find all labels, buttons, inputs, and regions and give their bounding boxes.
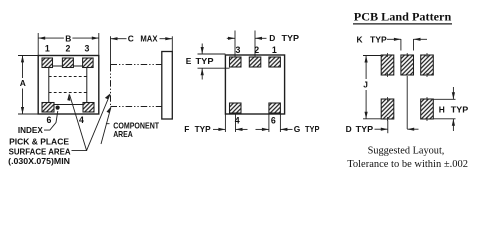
component area left centerline — [110, 65, 112, 106]
svg-text:TYP: TYP — [282, 33, 300, 43]
dimension G arrow right — [280, 128, 292, 130]
dimension J extension line bottom — [363, 118, 381, 120]
dimension H arrow bottom — [452, 119, 454, 131]
pick and place leader line right branch — [87, 95, 110, 151]
pad 3 top view — [83, 58, 94, 68]
svg-text:F: F — [184, 124, 189, 134]
dimension K extension line right — [413, 39, 415, 51]
component body inner outline — [49, 66, 87, 105]
pick and place area dashed line lower — [49, 92, 87, 94]
dimension C arrow right — [165, 37, 172, 40]
pick and place leader line — [70, 95, 87, 151]
dimension E arrow top — [201, 44, 203, 55]
svg-text:6: 6 — [47, 115, 52, 125]
pad 4 top view — [83, 103, 94, 113]
dimension A line — [22, 56, 24, 78]
package outline bottom view — [225, 55, 284, 114]
pad 2 top view — [62, 58, 73, 68]
dimension B extension line right — [98, 33, 100, 56]
component area leader line — [101, 107, 111, 144]
dimension A extension line bottom — [18, 113, 38, 115]
component area bottom centerline — [111, 106, 162, 108]
title underline — [353, 23, 452, 25]
dimension C arrow left — [111, 37, 118, 40]
svg-text:2: 2 — [254, 45, 259, 55]
svg-text:MAX: MAX — [140, 34, 157, 44]
dimension F arrow right — [236, 128, 248, 130]
dimension H extension line bottom — [433, 118, 455, 120]
svg-text:PICK & PLACE: PICK & PLACE — [9, 137, 69, 147]
land pad top left — [381, 55, 394, 75]
svg-text:Suggested Layout,: Suggested Layout, — [368, 145, 445, 157]
dimension B arrow right — [92, 37, 99, 40]
svg-text:TYP: TYP — [370, 34, 387, 44]
dimension F extension line right — [235, 114, 237, 132]
dimension A extension line top — [18, 55, 38, 57]
svg-text:TYP: TYP — [196, 56, 214, 66]
dimension E arrow bottom — [201, 68, 203, 79]
land pad bottom right — [421, 99, 434, 119]
land pad top middle — [401, 55, 414, 75]
svg-text:2: 2 — [66, 43, 71, 53]
svg-text:4: 4 — [235, 116, 240, 126]
component area leader arrow — [107, 106, 112, 113]
dimension J arrow down — [365, 112, 368, 119]
pad 6 bottom view — [269, 103, 281, 113]
svg-text:AREA: AREA — [113, 129, 133, 139]
dimension B arrow left — [38, 37, 45, 40]
dimension D extension line left — [234, 31, 236, 57]
dimension B extension line left — [37, 33, 39, 56]
dimension D arrow right — [255, 37, 267, 39]
pick and place area dashed line upper — [49, 76, 87, 78]
svg-text:E: E — [186, 56, 192, 66]
index leader line — [44, 111, 58, 130]
side view body rectangle — [162, 52, 173, 120]
dimension E extension line bottom — [198, 67, 230, 69]
svg-text:TYP: TYP — [195, 124, 212, 134]
svg-text:(.030X.075)MIN: (.030X.075)MIN — [8, 156, 70, 166]
svg-text:1: 1 — [45, 43, 50, 53]
dimension J extension line top — [363, 55, 381, 57]
pad 4 bottom view — [230, 103, 242, 113]
side view C extension line right — [171, 36, 173, 51]
dimension K arrow right — [414, 38, 428, 40]
pick and place right leader arrow — [105, 93, 111, 99]
svg-text:TYP: TYP — [305, 124, 320, 134]
pad 3 bottom view — [230, 57, 242, 67]
land pattern center line — [406, 76, 408, 129]
dimension F extension line left — [224, 114, 226, 132]
pad 1 bottom view — [269, 57, 281, 67]
dimension C line — [111, 38, 127, 40]
dimension H extension line top — [433, 98, 455, 100]
svg-text:G: G — [294, 124, 301, 134]
pick and place leader arrow — [67, 93, 70, 101]
dimension D land arrow left — [375, 128, 388, 130]
pad 2 bottom view — [249, 57, 260, 67]
svg-text:PCB Land Pattern: PCB Land Pattern — [354, 9, 452, 23]
svg-text:1: 1 — [272, 45, 277, 55]
land pad center ticks — [388, 53, 428, 121]
dimension G arrow left — [256, 128, 269, 130]
dimension B line — [38, 37, 64, 39]
index dot — [56, 106, 60, 110]
dimension D land arrow right — [407, 128, 418, 130]
svg-text:INDEX: INDEX — [18, 125, 43, 135]
dimension A arrow down — [21, 107, 24, 114]
svg-text:D: D — [269, 33, 275, 43]
component area top centerline — [111, 64, 162, 66]
side view C extension line left — [110, 36, 112, 65]
pad 6 top view — [42, 103, 54, 113]
land pad top right — [421, 55, 434, 75]
dimension A arrow up — [21, 55, 24, 62]
dimension K extension line left — [400, 39, 402, 51]
dimension J arrow up — [365, 56, 368, 63]
svg-text:Tolerance to be within ±.002: Tolerance to be within ±.002 — [347, 158, 468, 170]
dimension D arrow left — [227, 37, 235, 39]
dimension E extension line top — [198, 53, 226, 55]
svg-text:4: 4 — [79, 115, 84, 125]
svg-text:C: C — [128, 34, 134, 44]
pad 1 top view — [42, 58, 53, 68]
svg-text:A: A — [20, 78, 26, 88]
svg-text:6: 6 — [271, 116, 276, 126]
svg-text:3: 3 — [85, 43, 90, 53]
svg-text:TYP: TYP — [356, 124, 374, 134]
land pad bottom left — [381, 99, 394, 119]
svg-text:B: B — [65, 33, 71, 43]
dimension G extension line right — [279, 114, 281, 132]
svg-text:K: K — [357, 34, 363, 44]
dimension K arrow left — [387, 38, 401, 40]
dimension H arrow top — [452, 87, 454, 99]
dimension J line — [365, 56, 367, 80]
svg-text:3: 3 — [236, 45, 241, 55]
package outline top view — [38, 56, 99, 115]
svg-text:H: H — [439, 105, 445, 115]
dimension D land extension line — [387, 121, 389, 134]
svg-text:D: D — [346, 124, 352, 134]
dimension F arrow left — [213, 128, 225, 130]
dimension D extension line right — [254, 31, 256, 57]
dimension G extension line left — [268, 114, 270, 132]
svg-text:TYP: TYP — [451, 105, 469, 115]
svg-text:J: J — [363, 79, 368, 89]
